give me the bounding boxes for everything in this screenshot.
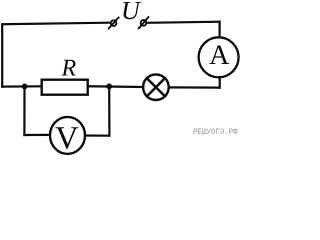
svg-text:V: V [55, 120, 79, 156]
wire middle-right horizontal to lamp [169, 86, 220, 88]
terminal right (U source clamp) [139, 17, 149, 28]
wire left vertical [1, 24, 3, 86]
wire right vertical to ammeter [219, 22, 221, 38]
resistor R1 box [42, 80, 88, 95]
wire voltmeter left horizontal [24, 134, 49, 136]
wire voltmeter left vertical [23, 86, 25, 135]
terminal left (U source clamp) [109, 18, 119, 29]
wire lamp to resistor [89, 85, 144, 88]
wire middle-left horizontal [2, 85, 41, 87]
junction node right [106, 84, 112, 90]
svg-text:R: R [61, 56, 77, 82]
wire top-right horizontal [148, 22, 220, 23]
ammeter A1 circle [199, 37, 239, 77]
junction node left [22, 84, 28, 90]
svg-text:U: U [121, 0, 142, 25]
watermark reshuoge.rf [193, 129, 238, 138]
wire voltmeter right horizontal [86, 134, 110, 136]
wire ammeter bottom vertical [219, 77, 221, 87]
lamp HL1 circle [143, 74, 169, 100]
lamp cross [147, 78, 165, 96]
wire top-left horizontal [2, 23, 109, 25]
wire voltmeter right vertical [108, 86, 110, 135]
svg-text:A: A [209, 40, 230, 71]
voltmeter PV1 circle [50, 117, 85, 154]
